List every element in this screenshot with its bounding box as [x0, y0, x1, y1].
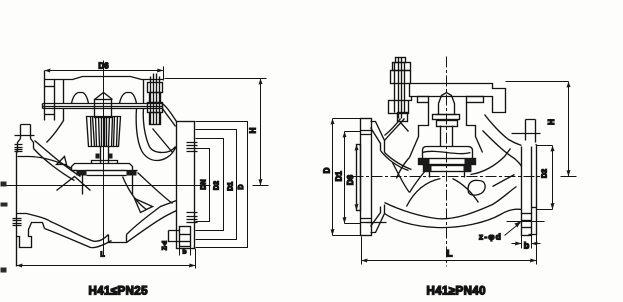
svg-text:H41≥PN40: H41≥PN40 [427, 286, 486, 298]
svg-text:Z-d: Z-d [163, 241, 169, 251]
svg-text:D: D [238, 184, 245, 189]
svg-text:D1: D1 [334, 171, 343, 182]
svg-text:D2: D2 [214, 181, 221, 190]
svg-text:D1: D1 [227, 182, 234, 191]
svg-text:H: H [249, 127, 258, 133]
svg-text:D2: D2 [542, 169, 549, 178]
svg-text:D: D [323, 167, 332, 173]
svg-text:b: b [524, 241, 530, 251]
svg-text:z-φd: z-φd [479, 232, 502, 242]
svg-text:H41≤PN25: H41≤PN25 [89, 286, 149, 298]
svg-text:D6: D6 [98, 62, 109, 71]
svg-text:L: L [100, 252, 105, 259]
svg-text:DN: DN [201, 179, 208, 189]
svg-text:D6: D6 [346, 174, 355, 185]
svg-text:L: L [447, 249, 453, 260]
svg-text:H: H [547, 119, 556, 125]
svg-text:b: b [183, 249, 187, 256]
